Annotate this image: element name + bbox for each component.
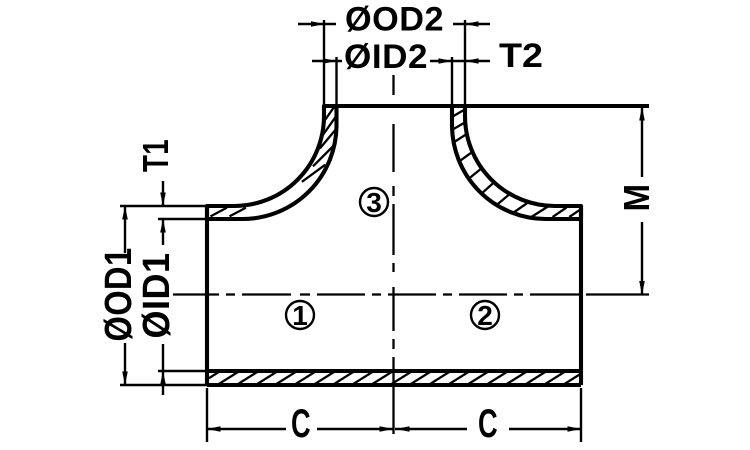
svg-text:ØOD1: ØOD1 xyxy=(98,248,140,342)
svg-text:ØID1: ØID1 xyxy=(136,253,178,339)
svg-text:M: M xyxy=(616,184,657,212)
svg-text:T1: T1 xyxy=(135,139,176,172)
svg-text:ØOD2: ØOD2 xyxy=(345,1,444,39)
svg-text:C: C xyxy=(478,402,498,446)
svg-text:1: 1 xyxy=(292,300,308,331)
svg-text:T2: T2 xyxy=(499,37,543,75)
svg-text:2: 2 xyxy=(477,300,493,331)
svg-text:3: 3 xyxy=(366,187,382,218)
svg-text:ØID2: ØID2 xyxy=(344,38,428,76)
svg-text:C: C xyxy=(291,402,311,446)
